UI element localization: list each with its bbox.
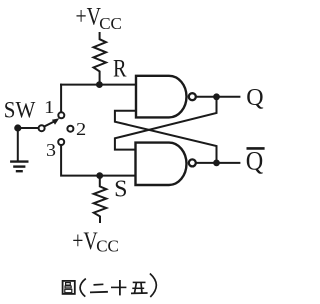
svg-text:+V: +V [76, 3, 102, 30]
svg-text:1: 1 [44, 97, 55, 117]
svg-text:Q: Q [246, 146, 264, 175]
svg-text:Q: Q [246, 85, 263, 111]
svg-text:CC: CC [96, 237, 119, 256]
svg-text:S: S [114, 177, 127, 203]
svg-text:+V: +V [72, 228, 98, 255]
svg-text:SW: SW [4, 97, 36, 122]
svg-text:CC: CC [99, 14, 122, 33]
svg-text:2: 2 [76, 119, 86, 139]
svg-text:3: 3 [46, 140, 56, 160]
svg-text:R: R [113, 56, 127, 83]
